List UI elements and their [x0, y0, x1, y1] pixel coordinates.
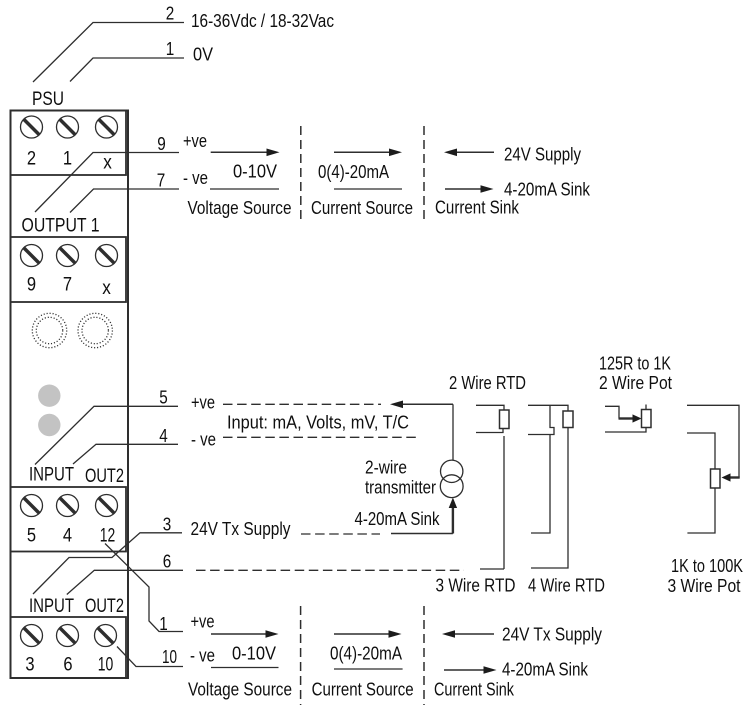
- bottom group: 24V Tx supply arrow (left): [454, 633, 494, 635]
- screw terminal 4: [57, 495, 79, 517]
- pin number 3: [163, 515, 172, 535]
- terminal labels 9 7 x: [27, 274, 111, 300]
- wire: dashed input +ve: [223, 403, 381, 405]
- wiper arrow into pot P3: [619, 417, 634, 419]
- wire: transmitter loop bottom: [391, 533, 453, 535]
- svg-text:OUTPUT 1: OUTPUT 1: [22, 215, 100, 237]
- wiper arrow into pot P4: [730, 476, 740, 478]
- svg-text:10: 10: [98, 654, 114, 676]
- wire: dashed 24V Tx supply: [301, 533, 380, 535]
- svg-text:5: 5: [27, 525, 36, 547]
- screw terminal x (PSU): [96, 116, 118, 138]
- top group: 24V supply arrow (left): [456, 151, 494, 153]
- svg-text:3: 3: [25, 654, 34, 676]
- label 4-20mA Sink (transmitter): [355, 509, 441, 529]
- wire: pot P3 wiper lead: [605, 406, 619, 418]
- separator dashed line (top 1): [300, 126, 302, 224]
- label 1K to 100K: [671, 556, 743, 576]
- wire: pot P4 bottom lead: [687, 488, 715, 533]
- wire: pot P3 top stem: [645, 405, 647, 410]
- svg-text:7: 7: [63, 274, 72, 296]
- svg-text:1: 1: [63, 148, 72, 170]
- net label -ve (input): [191, 430, 216, 450]
- svg-text:0(4)-20mA: 0(4)-20mA: [318, 162, 389, 182]
- label Voltage Source (top): [188, 198, 292, 218]
- svg-text:+ve: +ve: [183, 131, 207, 151]
- svg-text:- ve: - ve: [190, 646, 215, 666]
- wire: pot P4 top lead: [687, 405, 739, 477]
- pin number 1 (PSU 0V): [166, 39, 175, 59]
- net label +ve (input): [191, 393, 215, 413]
- wire: 4-20mA sink arrow into transmitter: [452, 506, 454, 534]
- wire: 0-10V underline (bottom): [211, 667, 279, 669]
- svg-text:INPUT: INPUT: [29, 595, 74, 617]
- wire: out2 +ve lead terminal 12 to annotation 1: [105, 544, 183, 632]
- wire: RTD R2 sense- down: [531, 435, 550, 534]
- wire: transmitter drop: [452, 404, 454, 460]
- module outline: [11, 111, 129, 679]
- svg-text:Current Sink: Current Sink: [434, 680, 515, 700]
- svg-text:- ve: - ve: [183, 168, 208, 188]
- wire: pot P3 bottom lead: [605, 428, 646, 433]
- label: Input: mA, Volts, mV, T/C: [227, 413, 409, 433]
- svg-text:4: 4: [159, 426, 168, 446]
- svg-text:24V Tx Supply: 24V Tx Supply: [191, 519, 291, 539]
- terminal block INPUT/OUT2 (5,4,12): [11, 487, 127, 552]
- svg-text:9: 9: [157, 134, 166, 154]
- svg-text:1K to 100K: 1K to 100K: [671, 556, 743, 576]
- label 0-10V (bottom): [232, 644, 276, 664]
- label 0(4)-20mA (top): [318, 162, 389, 182]
- bottom group: current source arrow: [334, 633, 389, 635]
- wire: PSU supply lead terminal 2: [33, 23, 184, 83]
- potentiometer P3 (2 wire pot): [642, 410, 652, 428]
- svg-text:6: 6: [163, 552, 172, 572]
- top group: voltage source arrow: [211, 151, 267, 153]
- label 2 Wire RTD: [449, 373, 526, 393]
- svg-text:3: 3: [163, 515, 172, 535]
- resistor R2 (4 wire RTD): [563, 411, 573, 428]
- potentiometer P2 (dotted trim pot): [78, 313, 112, 347]
- wire: 0(4)-20mA underline (top): [334, 188, 402, 190]
- svg-text:Current Source: Current Source: [311, 198, 413, 218]
- module label OUTPUT 1: [22, 215, 100, 237]
- wire: out2 -ve lead terminal 10: [117, 647, 183, 667]
- svg-text:+ve: +ve: [191, 393, 215, 413]
- separator dashed line (top 2): [423, 126, 425, 224]
- svg-text:x: x: [102, 277, 111, 299]
- wire: dashed RTD common (terminal 6): [196, 569, 464, 571]
- pin number 2 (PSU +supply): [166, 4, 175, 24]
- svg-text:1: 1: [166, 39, 175, 59]
- svg-text:2-wire: 2-wire: [365, 458, 407, 478]
- screw terminal 7: [57, 245, 79, 267]
- svg-text:2: 2: [166, 4, 175, 24]
- net label -ve (output1): [183, 168, 208, 188]
- bottom group: 4-20mA sink arrow (right): [444, 669, 484, 671]
- svg-text:PSU: PSU: [32, 88, 64, 110]
- wire: RTD R2 fourth wire: [531, 428, 568, 569]
- svg-text:OUT2: OUT2: [85, 465, 124, 487]
- terminal block PSU (2,1,x): [11, 111, 127, 176]
- svg-text:4: 4: [63, 525, 72, 547]
- label Current Sink (top): [435, 197, 520, 217]
- LED D2: [38, 414, 60, 436]
- wire: input common lead terminal 6: [67, 570, 183, 594]
- pin number 5: [159, 388, 168, 408]
- pin number 4: [159, 426, 168, 446]
- svg-text:5: 5: [159, 388, 168, 408]
- potentiometer P4 (3 wire pot): [711, 469, 721, 488]
- svg-text:125R to 1K: 125R to 1K: [599, 354, 671, 374]
- wire: output1 +ve lead terminal 9: [35, 153, 179, 213]
- screw terminal 9: [21, 245, 43, 267]
- svg-text:7: 7: [157, 171, 166, 191]
- svg-text:2 Wire RTD: 2 Wire RTD: [449, 373, 526, 393]
- svg-text:6: 6: [63, 654, 72, 676]
- separator dashed line (bottom 1): [300, 606, 302, 705]
- svg-text:4 Wire RTD: 4 Wire RTD: [528, 576, 605, 596]
- pin number 9: [157, 134, 166, 154]
- net label: 16-36Vdc / 18-32Vac: [191, 11, 334, 31]
- svg-text:10: 10: [162, 647, 177, 667]
- separator dashed line (bottom 2): [423, 606, 425, 705]
- screw terminal 10: [95, 625, 117, 647]
- svg-text:INPUT: INPUT: [29, 464, 74, 486]
- pin number 1 (out2 +ve row): [159, 614, 168, 634]
- top group: current source arrow: [334, 151, 390, 153]
- svg-text:4-20mA Sink: 4-20mA Sink: [502, 660, 589, 680]
- label Current Source (bottom): [312, 680, 414, 700]
- pin number 6: [163, 552, 172, 572]
- terminal labels 5 4 12: [27, 525, 115, 547]
- svg-text:1: 1: [159, 614, 168, 634]
- svg-text:Current Source: Current Source: [312, 680, 414, 700]
- RTD R2 top wire: [528, 405, 568, 411]
- potentiometer P1 (dotted trim pot): [32, 313, 66, 347]
- screw terminal 2: [21, 116, 43, 138]
- wire: 0-10V underline (top): [210, 188, 279, 190]
- svg-text:OUT2: OUT2: [85, 595, 124, 617]
- screw terminal 1: [57, 116, 79, 138]
- label 0(4)-20mA (bottom): [330, 644, 402, 664]
- resistor R1 (2/3 wire RTD): [500, 410, 510, 429]
- module label PSU: [32, 88, 64, 110]
- svg-text:transmitter: transmitter: [365, 478, 436, 498]
- terminal block OUTPUT1 (9,7,x): [11, 237, 127, 302]
- net label +ve (output1): [183, 131, 207, 151]
- label Current Sink (bottom): [434, 680, 515, 700]
- pin number 7: [157, 171, 166, 191]
- svg-text:16-36Vdc / 18-32Vac: 16-36Vdc / 18-32Vac: [191, 11, 334, 31]
- svg-text:9: 9: [27, 274, 36, 296]
- label 4 Wire RTD: [528, 576, 605, 596]
- label Voltage Source (bottom): [188, 680, 292, 700]
- screw terminal 5: [21, 495, 43, 517]
- RTD R1 top wire: [476, 405, 504, 410]
- bottom group: voltage source arrow: [211, 633, 266, 635]
- label 3 Wire Pot: [668, 576, 741, 596]
- svg-text:0-10V: 0-10V: [233, 162, 277, 182]
- svg-text:x: x: [103, 152, 112, 174]
- svg-text:24V Tx Supply: 24V Tx Supply: [502, 625, 602, 645]
- label 2 Wire Pot: [599, 373, 672, 393]
- terminal block OUT2 (3,6,10): [11, 617, 127, 678]
- wire: input arrow from transmitter: [403, 403, 453, 405]
- wire: input +ve lead terminal 5: [35, 406, 178, 464]
- label transmitter: [365, 478, 436, 498]
- pin number 10: [162, 647, 177, 667]
- svg-text:0-10V: 0-10V: [232, 644, 276, 664]
- wire: pot P4 second lead: [687, 433, 715, 469]
- wire: PSU 0V lead terminal 1: [70, 58, 184, 82]
- wire: RTD R2 sense+: [528, 405, 554, 434]
- svg-text:Voltage Source: Voltage Source: [188, 198, 292, 218]
- screw terminal 3: [21, 625, 43, 647]
- LED D1: [38, 385, 60, 407]
- label 0-10V (top): [233, 162, 277, 182]
- wire: RTD R1 bottom hook: [480, 568, 504, 570]
- label 24V Supply: [504, 145, 581, 165]
- label Current Source (top): [311, 198, 413, 218]
- wire: dashed input -ve: [223, 436, 417, 438]
- transmitter TX1 (2-wire transmitter symbol): [440, 460, 463, 498]
- svg-text:12: 12: [100, 525, 116, 547]
- svg-text:0(4)-20mA: 0(4)-20mA: [330, 644, 402, 664]
- screw terminal 12: [96, 495, 118, 517]
- screw terminal x (output1): [96, 245, 118, 267]
- svg-text:Current Sink: Current Sink: [435, 197, 520, 217]
- svg-text:- ve: - ve: [191, 430, 216, 450]
- svg-text:Input: mA, Volts, mV, T/C: Input: mA, Volts, mV, T/C: [227, 413, 409, 433]
- svg-text:4-20mA Sink: 4-20mA Sink: [355, 509, 441, 529]
- svg-text:3 Wire Pot: 3 Wire Pot: [668, 576, 741, 596]
- net label +ve (out2): [191, 612, 215, 632]
- svg-text:2 Wire Pot: 2 Wire Pot: [599, 373, 672, 393]
- svg-text:0V: 0V: [193, 45, 213, 65]
- label 24V Tx Supply (bottom): [502, 625, 602, 645]
- net label: 0V: [193, 45, 213, 65]
- wire: 24V Tx supply lead terminal 3: [33, 533, 182, 594]
- RTD R1 bottom wire: [476, 429, 503, 433]
- wire: RTD R1 third wire down: [503, 436, 505, 569]
- terminal labels 2 1 x: [27, 148, 112, 174]
- label 4-20mA Sink (top right): [504, 180, 591, 200]
- label 3 Wire RTD: [436, 576, 516, 596]
- label 2-wire: [365, 458, 407, 478]
- svg-text:Voltage Source: Voltage Source: [188, 680, 292, 700]
- svg-text:3 Wire RTD: 3 Wire RTD: [436, 576, 516, 596]
- top group: 4-20mA sink arrow (right): [445, 188, 481, 190]
- label 125R to 1K: [599, 354, 671, 374]
- svg-text:24V Supply: 24V Supply: [504, 145, 581, 165]
- module labels INPUT OUT2 (upper): [29, 464, 124, 488]
- wire: 0(4)-20mA underline (bottom): [334, 668, 403, 670]
- net label 24V Tx Supply (input group): [191, 519, 291, 539]
- module labels INPUT OUT2 (lower): [29, 595, 124, 617]
- screw terminal 6: [57, 625, 79, 647]
- svg-text:2: 2: [27, 148, 36, 170]
- wire: output1 -ve lead terminal 7: [70, 189, 179, 213]
- label 4-20mA Sink (bottom right): [502, 660, 589, 680]
- net label -ve (out2): [190, 646, 215, 666]
- terminal labels 3 6 10: [25, 654, 113, 676]
- svg-text:+ve: +ve: [191, 612, 215, 632]
- wire: input -ve lead terminal 4: [73, 444, 178, 464]
